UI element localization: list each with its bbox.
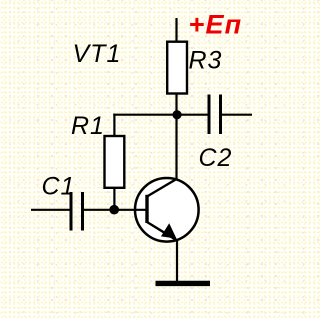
resistor R3: [167, 42, 187, 94]
wire R1 bottom to base node: [113, 188, 115, 210]
transistor VT1 body circle: [135, 178, 199, 242]
svg-text:VT1: VT1: [73, 40, 122, 68]
emitter arrowhead: [161, 223, 177, 238]
wire C2 right plate to output: [222, 114, 252, 116]
wire collector node to C2 left plate: [177, 114, 208, 116]
wire input to C1 left plate: [31, 209, 70, 211]
svg-text:+Eп: +Eп: [189, 10, 243, 40]
svg-text:R1: R1: [71, 112, 105, 140]
capacitor C1 left plate: [70, 192, 73, 231]
resistor R1: [105, 136, 125, 188]
base junction node: [109, 205, 119, 215]
transistor emitter stroke: [147, 222, 176, 240]
transistor collector stroke: [147, 179, 177, 197]
wire emitter to ground: [176, 240, 178, 283]
wire C1 right plate to base bar: [84, 209, 146, 211]
capacitor C2 left plate: [208, 95, 211, 135]
ground bar: [156, 281, 211, 286]
capacitor C1 right plate: [81, 192, 84, 231]
svg-text:R3: R3: [189, 46, 223, 74]
wire corner down to R1 top: [113, 114, 115, 136]
wire R3 bottom to collector node: [175, 94, 177, 117]
wire supply to R3 top: [175, 18, 177, 42]
wire collector vertical: [175, 114, 177, 180]
wire feedback horizontal (R1 top to collector node): [113, 114, 177, 116]
transistor base bar: [145, 195, 148, 223]
svg-text:C2: C2: [199, 144, 233, 172]
capacitor C2 right plate: [219, 95, 222, 135]
collector node: [172, 110, 181, 119]
svg-text:C1: C1: [42, 173, 76, 201]
